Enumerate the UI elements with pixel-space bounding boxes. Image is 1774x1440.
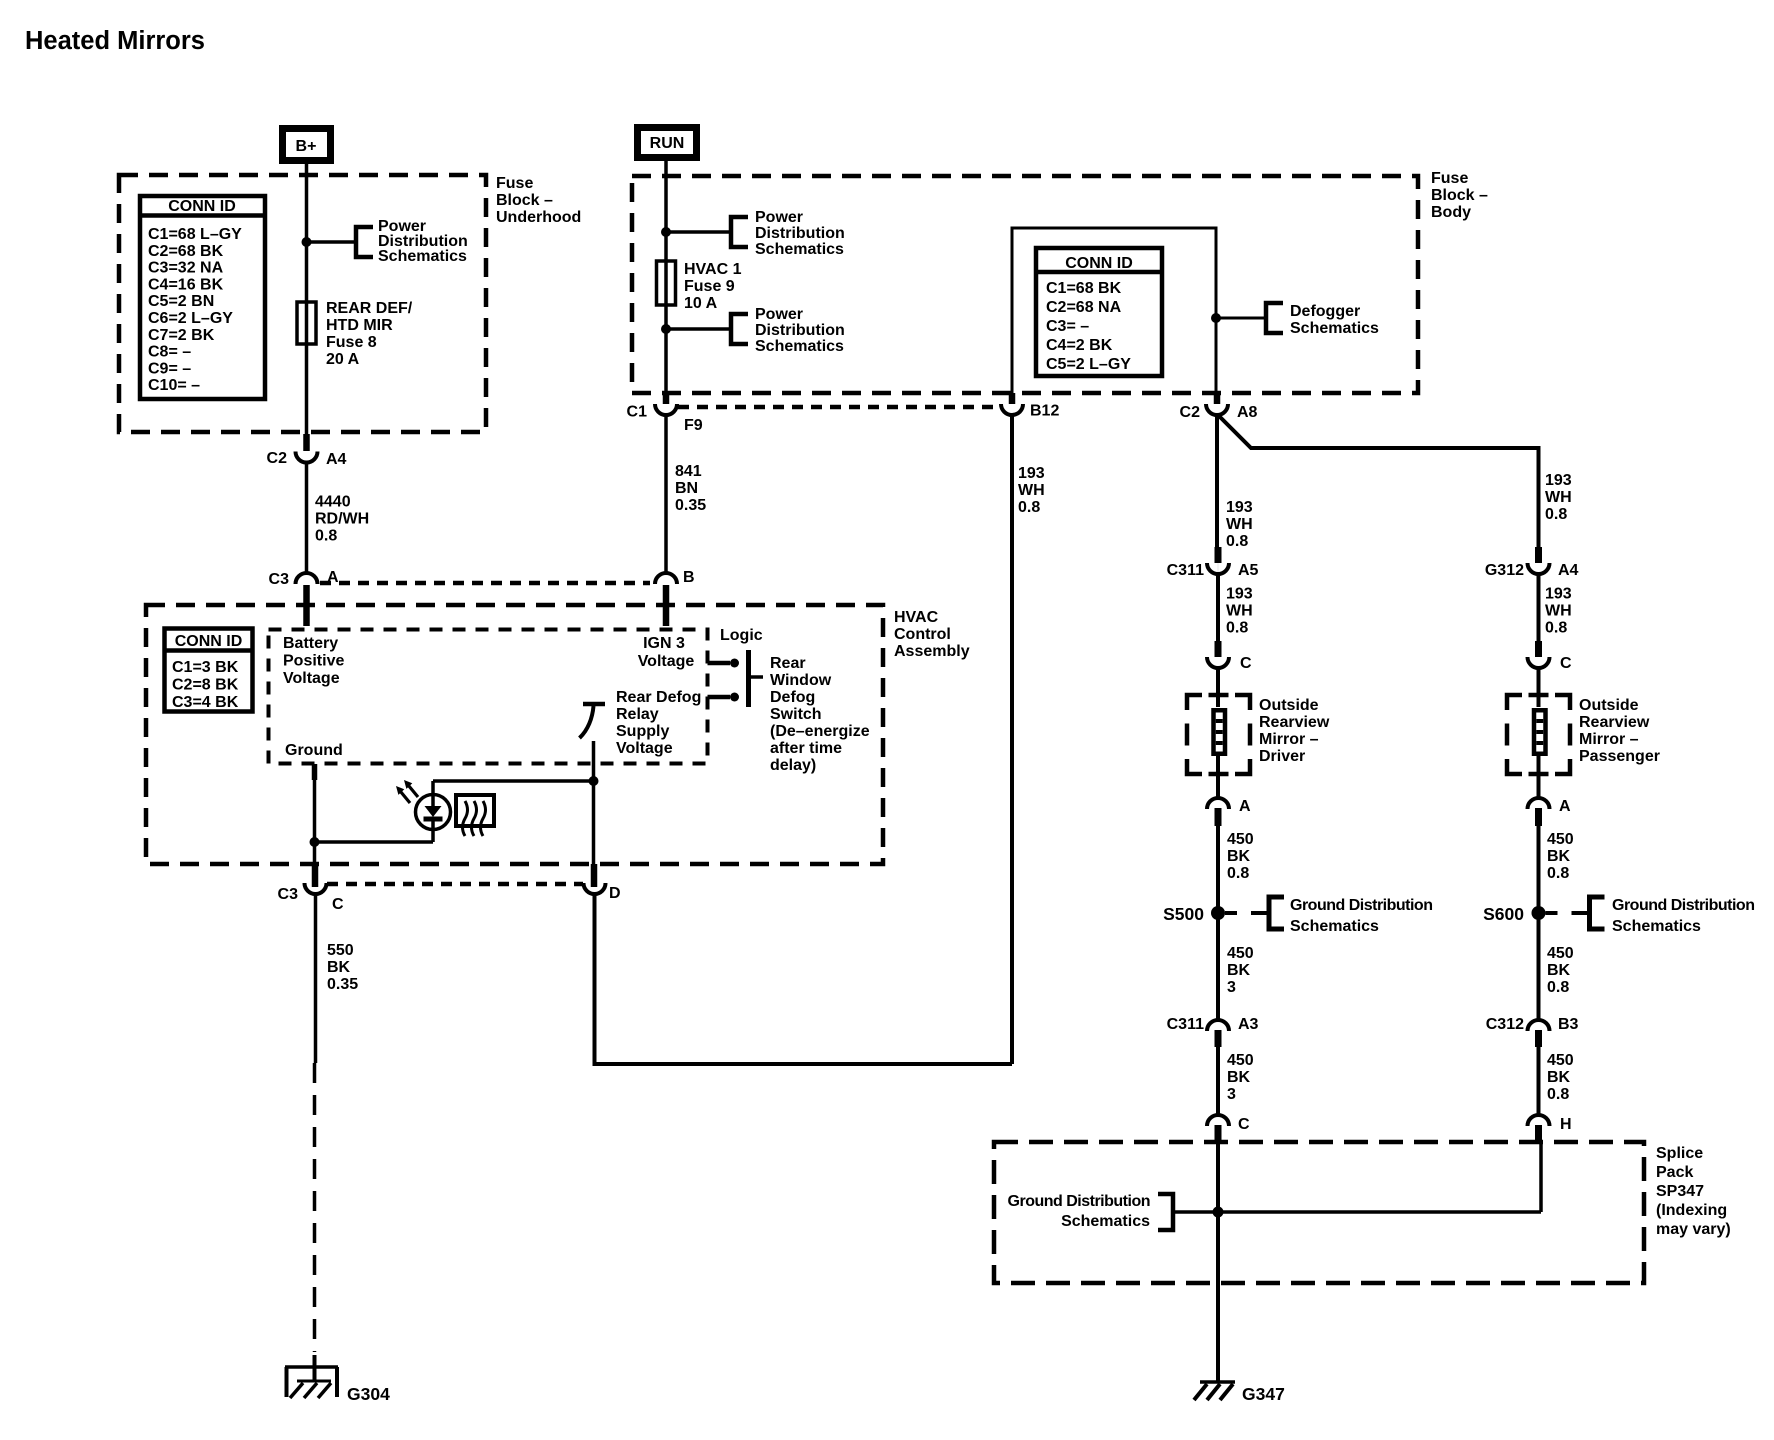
svg-text:841: 841 bbox=[675, 463, 702, 480]
svg-text:C3=32 NA: C3=32 NA bbox=[148, 260, 224, 277]
svg-text:A4: A4 bbox=[326, 451, 347, 468]
svg-text:BK: BK bbox=[1547, 848, 1571, 865]
svg-text:0.8: 0.8 bbox=[1547, 865, 1569, 882]
svg-text:C: C bbox=[1238, 1116, 1250, 1133]
svg-text:C: C bbox=[1240, 655, 1252, 672]
svg-text:Voltage: Voltage bbox=[283, 670, 340, 687]
svg-text:C3: C3 bbox=[269, 571, 290, 588]
svg-text:C4=2 BK: C4=2 BK bbox=[1046, 337, 1113, 354]
svg-text:Control: Control bbox=[894, 626, 951, 643]
svg-text:RUN: RUN bbox=[650, 135, 685, 152]
svg-text:WH: WH bbox=[1018, 482, 1045, 499]
svg-text:BK: BK bbox=[1227, 848, 1251, 865]
svg-text:0.8: 0.8 bbox=[315, 528, 337, 545]
svg-text:0.8: 0.8 bbox=[1018, 499, 1040, 516]
svg-text:550: 550 bbox=[327, 942, 354, 959]
svg-text:Heated Mirrors: Heated Mirrors bbox=[25, 27, 205, 55]
svg-text:Voltage: Voltage bbox=[616, 740, 673, 757]
svg-text:Pack: Pack bbox=[1656, 1164, 1693, 1181]
svg-text:(Indexing: (Indexing bbox=[1656, 1202, 1727, 1219]
svg-text:C3=4 BK: C3=4 BK bbox=[172, 694, 239, 711]
svg-text:B+: B+ bbox=[296, 138, 317, 155]
svg-text:450: 450 bbox=[1227, 1052, 1254, 1069]
svg-text:Schematics: Schematics bbox=[755, 338, 844, 355]
svg-text:A: A bbox=[1559, 798, 1571, 815]
svg-text:BK: BK bbox=[327, 959, 351, 976]
svg-text:450: 450 bbox=[1227, 831, 1254, 848]
svg-text:C2=68 NA: C2=68 NA bbox=[1046, 299, 1122, 316]
svg-text:193: 193 bbox=[1545, 586, 1572, 603]
svg-text:RD/WH: RD/WH bbox=[315, 511, 369, 528]
svg-text:193: 193 bbox=[1545, 472, 1572, 489]
svg-text:CONN ID: CONN ID bbox=[1065, 255, 1133, 272]
svg-text:A8: A8 bbox=[1237, 404, 1258, 421]
svg-text:Passenger: Passenger bbox=[1579, 748, 1660, 765]
svg-text:WH: WH bbox=[1545, 603, 1572, 620]
svg-text:0.8: 0.8 bbox=[1227, 865, 1249, 882]
svg-text:C3: C3 bbox=[278, 886, 299, 903]
svg-text:Schematics: Schematics bbox=[1290, 320, 1379, 337]
svg-text:Block –: Block – bbox=[496, 192, 553, 209]
svg-text:Splice: Splice bbox=[1656, 1145, 1703, 1162]
svg-text:Fuse: Fuse bbox=[1431, 170, 1468, 187]
svg-text:Body: Body bbox=[1431, 204, 1471, 221]
svg-text:after time: after time bbox=[770, 740, 842, 757]
svg-text:C2=68 BK: C2=68 BK bbox=[148, 243, 224, 260]
svg-text:B12: B12 bbox=[1030, 403, 1059, 420]
svg-text:Schematics: Schematics bbox=[1290, 918, 1379, 935]
svg-text:C2: C2 bbox=[267, 450, 288, 467]
svg-text:Ground Distribution: Ground Distribution bbox=[1008, 1193, 1150, 1210]
svg-text:C8= –: C8= – bbox=[148, 344, 191, 361]
svg-text:C1: C1 bbox=[627, 404, 648, 421]
svg-text:Assembly: Assembly bbox=[894, 643, 970, 660]
svg-text:Supply: Supply bbox=[616, 723, 669, 740]
svg-text:BK: BK bbox=[1227, 962, 1251, 979]
svg-text:Ground Distribution: Ground Distribution bbox=[1290, 897, 1432, 914]
svg-text:SP347: SP347 bbox=[1656, 1183, 1704, 1200]
svg-text:WH: WH bbox=[1226, 603, 1253, 620]
svg-text:(De–energize: (De–energize bbox=[770, 723, 870, 740]
svg-text:0.8: 0.8 bbox=[1547, 1086, 1569, 1103]
svg-text:REAR DEF/: REAR DEF/ bbox=[326, 300, 413, 317]
svg-text:Window: Window bbox=[770, 672, 832, 689]
svg-text:C9= –: C9= – bbox=[148, 360, 191, 377]
svg-text:Underhood: Underhood bbox=[496, 209, 581, 226]
svg-text:Rearview: Rearview bbox=[1259, 714, 1330, 731]
svg-text:C5=2 L–GY: C5=2 L–GY bbox=[1046, 356, 1131, 373]
svg-text:Outside: Outside bbox=[1259, 697, 1319, 714]
svg-text:HTD MIR: HTD MIR bbox=[326, 317, 393, 334]
svg-text:C4=16 BK: C4=16 BK bbox=[148, 276, 224, 293]
svg-text:0.35: 0.35 bbox=[675, 497, 706, 514]
svg-text:0.8: 0.8 bbox=[1226, 533, 1248, 550]
svg-text:Ground Distribution: Ground Distribution bbox=[1612, 897, 1754, 914]
svg-text:Defog: Defog bbox=[770, 689, 815, 706]
svg-text:Positive: Positive bbox=[283, 653, 344, 670]
svg-text:Fuse 8: Fuse 8 bbox=[326, 334, 377, 351]
svg-text:G347: G347 bbox=[1242, 1384, 1285, 1404]
svg-text:0.8: 0.8 bbox=[1545, 506, 1567, 523]
svg-text:193: 193 bbox=[1018, 465, 1045, 482]
svg-text:Defogger: Defogger bbox=[1290, 303, 1360, 320]
svg-text:Rear: Rear bbox=[770, 655, 806, 672]
svg-text:CONN ID: CONN ID bbox=[175, 633, 243, 650]
svg-text:0.8: 0.8 bbox=[1226, 620, 1248, 637]
svg-text:Rear Defog: Rear Defog bbox=[616, 689, 701, 706]
svg-text:H: H bbox=[1560, 1116, 1572, 1133]
svg-text:F9: F9 bbox=[684, 417, 703, 434]
svg-text:C10= –: C10= – bbox=[148, 377, 200, 394]
svg-text:Distribution: Distribution bbox=[755, 225, 845, 242]
svg-text:Relay: Relay bbox=[616, 706, 659, 723]
svg-text:HVAC 1: HVAC 1 bbox=[684, 261, 742, 278]
svg-text:WH: WH bbox=[1545, 489, 1572, 506]
svg-text:Block –: Block – bbox=[1431, 187, 1488, 204]
svg-text:193: 193 bbox=[1226, 499, 1253, 516]
svg-text:C6=2 L–GY: C6=2 L–GY bbox=[148, 310, 233, 327]
svg-text:A3: A3 bbox=[1238, 1016, 1259, 1033]
svg-text:Driver: Driver bbox=[1259, 748, 1305, 765]
svg-text:BK: BK bbox=[1547, 1069, 1571, 1086]
svg-text:0.35: 0.35 bbox=[327, 976, 358, 993]
svg-text:Ground: Ground bbox=[285, 742, 343, 759]
svg-text:450: 450 bbox=[1547, 945, 1574, 962]
svg-text:Voltage: Voltage bbox=[638, 653, 695, 670]
svg-text:Switch: Switch bbox=[770, 706, 822, 723]
svg-text:Rearview: Rearview bbox=[1579, 714, 1650, 731]
svg-text:CONN ID: CONN ID bbox=[168, 198, 236, 215]
svg-text:Schematics: Schematics bbox=[1612, 918, 1701, 935]
svg-text:Fuse 9: Fuse 9 bbox=[684, 278, 735, 295]
svg-text:193: 193 bbox=[1226, 586, 1253, 603]
svg-text:Mirror –: Mirror – bbox=[1579, 731, 1639, 748]
svg-text:C: C bbox=[332, 896, 344, 913]
svg-text:A5: A5 bbox=[1238, 562, 1259, 579]
svg-text:WH: WH bbox=[1226, 516, 1253, 533]
svg-text:C1=3 BK: C1=3 BK bbox=[172, 659, 239, 676]
svg-text:C2: C2 bbox=[1180, 404, 1201, 421]
svg-text:Battery: Battery bbox=[283, 635, 338, 652]
svg-text:Schematics: Schematics bbox=[1061, 1213, 1150, 1230]
svg-text:G304: G304 bbox=[347, 1384, 390, 1404]
svg-text:Outside: Outside bbox=[1579, 697, 1639, 714]
svg-text:delay): delay) bbox=[770, 757, 816, 774]
svg-text:A: A bbox=[1239, 798, 1251, 815]
svg-text:4440: 4440 bbox=[315, 494, 351, 511]
svg-text:Power: Power bbox=[755, 209, 803, 226]
svg-text:IGN 3: IGN 3 bbox=[643, 635, 685, 652]
svg-text:Fuse: Fuse bbox=[496, 175, 533, 192]
svg-text:0.8: 0.8 bbox=[1545, 620, 1567, 637]
svg-text:C5=2 BN: C5=2 BN bbox=[148, 293, 214, 310]
svg-text:HVAC: HVAC bbox=[894, 609, 939, 626]
svg-text:B: B bbox=[683, 569, 695, 586]
svg-text:S600: S600 bbox=[1483, 904, 1524, 924]
svg-text:C2=8 BK: C2=8 BK bbox=[172, 677, 239, 694]
svg-text:Power: Power bbox=[755, 306, 803, 323]
svg-text:C7=2 BK: C7=2 BK bbox=[148, 327, 215, 344]
svg-text:C311: C311 bbox=[1167, 562, 1204, 579]
svg-text:450: 450 bbox=[1547, 1052, 1574, 1069]
svg-text:BK: BK bbox=[1227, 1069, 1251, 1086]
svg-text:20 A: 20 A bbox=[326, 351, 360, 368]
svg-text:3: 3 bbox=[1227, 979, 1236, 996]
svg-text:C311: C311 bbox=[1167, 1016, 1204, 1033]
svg-text:Schematics: Schematics bbox=[378, 248, 467, 265]
svg-text:BK: BK bbox=[1547, 962, 1571, 979]
svg-text:A4: A4 bbox=[1558, 562, 1579, 579]
svg-text:C3= –: C3= – bbox=[1046, 318, 1089, 335]
svg-text:C1=68 L–GY: C1=68 L–GY bbox=[148, 226, 242, 243]
svg-text:Mirror –: Mirror – bbox=[1259, 731, 1319, 748]
svg-text:10 A: 10 A bbox=[684, 295, 718, 312]
svg-text:S500: S500 bbox=[1163, 904, 1204, 924]
svg-text:3: 3 bbox=[1227, 1086, 1236, 1103]
svg-text:G312: G312 bbox=[1485, 562, 1524, 579]
svg-text:0.8: 0.8 bbox=[1547, 979, 1569, 996]
svg-text:BN: BN bbox=[675, 480, 698, 497]
svg-text:C: C bbox=[1560, 655, 1572, 672]
svg-text:C312: C312 bbox=[1486, 1016, 1524, 1033]
svg-text:C1=68 BK: C1=68 BK bbox=[1046, 280, 1122, 297]
svg-text:D: D bbox=[609, 885, 621, 902]
svg-text:may vary): may vary) bbox=[1656, 1221, 1731, 1238]
svg-text:Distribution: Distribution bbox=[755, 322, 845, 339]
svg-text:450: 450 bbox=[1227, 945, 1254, 962]
svg-text:B3: B3 bbox=[1558, 1016, 1579, 1033]
svg-text:Schematics: Schematics bbox=[755, 241, 844, 258]
svg-text:Logic: Logic bbox=[720, 627, 763, 644]
svg-text:450: 450 bbox=[1547, 831, 1574, 848]
